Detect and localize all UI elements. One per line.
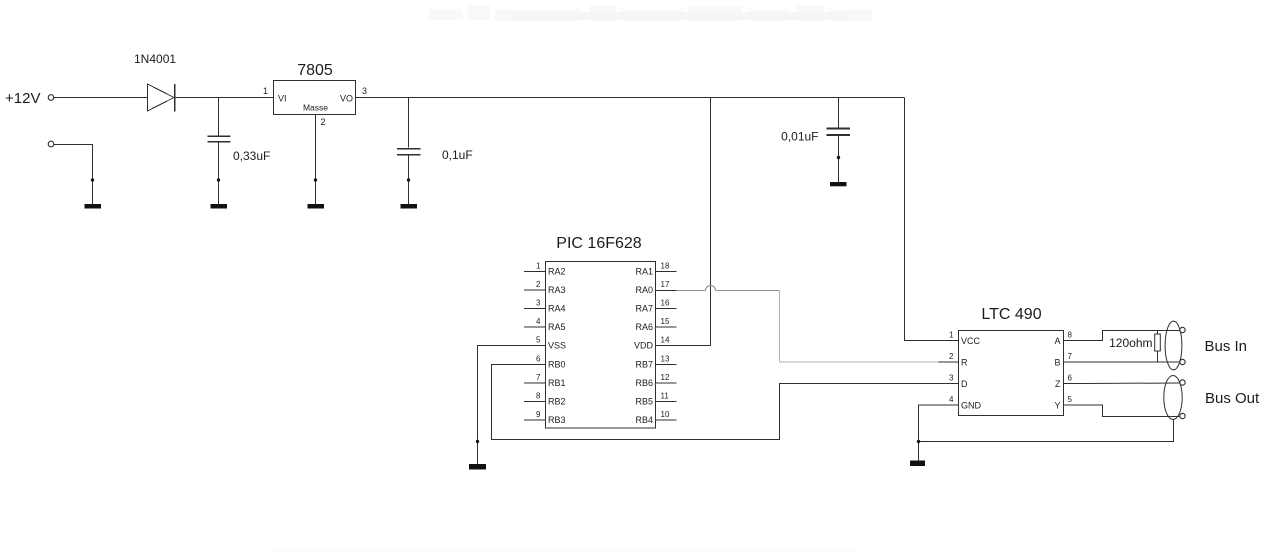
wire 7805 pin2 to ground [315, 115, 317, 205]
wire LTC B to Bus In bottom [1084, 361, 1181, 363]
wire diode to 7805 VI [175, 97, 273, 99]
svg-text:11: 11 [661, 392, 670, 401]
svg-text:2: 2 [321, 117, 326, 127]
junction dot on VSS ground lead [476, 440, 479, 443]
terminal Bus Out Y [1180, 413, 1185, 418]
svg-text:RB2: RB2 [548, 397, 566, 407]
svg-text:RB7: RB7 [635, 360, 653, 370]
ground under 7805 [308, 204, 325, 209]
LTC right pin names [1054, 336, 1061, 411]
svg-text:VSS: VSS [548, 341, 566, 351]
svg-text:7805: 7805 [297, 62, 333, 79]
svg-text:15: 15 [661, 317, 670, 326]
terminal +12V [48, 95, 54, 101]
svg-text:2: 2 [949, 352, 954, 361]
svg-text:8: 8 [536, 392, 541, 401]
svg-text:Bus In: Bus In [1205, 338, 1248, 355]
wire RA0 corner down (light grey) [779, 291, 781, 363]
svg-text:PIC 16F628: PIC 16F628 [556, 235, 641, 252]
svg-text:3: 3 [536, 299, 541, 308]
LTC right pin numbers [1068, 331, 1073, 405]
wire 5V rail from VO to LTC drop [356, 97, 905, 99]
svg-text:RB4: RB4 [635, 415, 653, 425]
PIC right pin numbers [661, 262, 670, 420]
wire LTC GND to ground and shield [919, 405, 1174, 461]
LTC right pin stubs 8-5 [1064, 341, 1084, 406]
IC U3 LTC 490 body [959, 331, 1064, 416]
junction dot on return ground lead [91, 178, 94, 181]
junction dot on 7805 ground lead [314, 178, 317, 181]
svg-text:9: 9 [536, 410, 541, 419]
LTC left pin names [961, 336, 982, 411]
svg-text:RA2: RA2 [548, 267, 566, 277]
PIC left pin numbers [536, 262, 541, 420]
svg-text:17: 17 [661, 280, 670, 289]
PIC right pin names [634, 267, 654, 426]
regulator U1 7805 body [274, 81, 356, 115]
wire RA0 to hop (grey) [677, 290, 706, 292]
wire 5V rail down to PIC VDD [656, 98, 711, 346]
wire +12V to diode [54, 97, 148, 99]
svg-text:0,33uF: 0,33uF [233, 149, 270, 163]
svg-text:VCC: VCC [961, 336, 981, 346]
svg-text:RB5: RB5 [635, 397, 653, 407]
svg-text:1: 1 [536, 262, 541, 271]
svg-text:6: 6 [1068, 374, 1073, 383]
junction dot on C2 ground lead [407, 178, 410, 181]
svg-text:+12V: +12V [5, 90, 40, 107]
svg-text:RA5: RA5 [548, 322, 566, 332]
ground under C3 [830, 182, 847, 186]
svg-text:14: 14 [661, 336, 670, 345]
svg-text:18: 18 [661, 262, 670, 271]
wire RA0 hop to corner (grey) [716, 290, 780, 292]
svg-text:12: 12 [661, 373, 670, 382]
diode D1 1N4001 [148, 84, 175, 111]
svg-text:B: B [1054, 358, 1060, 368]
svg-text:2: 2 [536, 280, 541, 289]
svg-text:3: 3 [949, 374, 954, 383]
svg-text:0,01uF: 0,01uF [781, 130, 818, 144]
svg-text:8: 8 [1068, 331, 1073, 340]
svg-text:A: A [1054, 336, 1060, 346]
svg-text:5: 5 [1068, 395, 1073, 404]
wire RA0 to LTC R (light grey) [780, 361, 939, 363]
capacitor C3 0,01uF [827, 98, 851, 183]
LTC left pin numbers [949, 331, 954, 405]
svg-text:1: 1 [263, 86, 268, 96]
svg-text:4: 4 [949, 395, 954, 404]
svg-text:Masse: Masse [303, 103, 328, 113]
terminal Bus In B [1180, 359, 1185, 364]
junction dot on C3 ground lead [837, 156, 840, 159]
svg-text:Bus Out: Bus Out [1205, 390, 1260, 407]
svg-text:RA0: RA0 [635, 285, 653, 295]
svg-text:0,1uF: 0,1uF [442, 148, 473, 162]
wire 5V rail down to LTC VCC [905, 98, 959, 341]
Bus In cable ellipse [1165, 321, 1182, 370]
wire PIC RA0 stub [656, 290, 677, 292]
Bus Out cable ellipse [1164, 376, 1182, 420]
wire LTC Y to Bus Out bottom [1084, 405, 1181, 417]
faint watermark band top [429, 5, 872, 21]
wire LTC A to Bus In top [1084, 331, 1181, 341]
terminal ground return [48, 141, 54, 147]
wire PIC RB0 to LTC D [492, 365, 959, 440]
svg-text:GND: GND [961, 401, 982, 411]
svg-text:Z: Z [1055, 379, 1061, 389]
junction dot on LTC ground [917, 440, 920, 443]
svg-text:5: 5 [536, 336, 541, 345]
svg-text:120ohm: 120ohm [1109, 336, 1152, 350]
svg-text:16: 16 [661, 299, 670, 308]
svg-text:R: R [961, 358, 968, 368]
wire LTC R stub [939, 361, 959, 363]
svg-text:13: 13 [661, 355, 670, 364]
wire return terminal to ground [54, 145, 93, 205]
svg-text:RB1: RB1 [548, 378, 566, 388]
svg-text:1: 1 [949, 331, 954, 340]
IC U2 PIC 16F628 body [546, 262, 656, 429]
resistor R1 lead bottom [1157, 351, 1159, 362]
svg-text:6: 6 [536, 355, 541, 364]
ground under LTC [910, 461, 925, 467]
svg-text:4: 4 [536, 317, 541, 326]
wire LTC Z to Bus Out top [1084, 382, 1181, 385]
svg-text:RB6: RB6 [635, 378, 653, 388]
svg-text:VI: VI [278, 94, 287, 104]
PIC left pin stubs 1-9 [524, 272, 546, 421]
ground under C2 [401, 204, 418, 209]
terminal Bus Out Z [1180, 380, 1185, 385]
terminal Bus In A [1180, 327, 1185, 332]
svg-text:RA4: RA4 [548, 304, 566, 314]
svg-text:RA1: RA1 [635, 267, 653, 277]
svg-text:D: D [961, 379, 968, 389]
svg-text:RB0: RB0 [548, 360, 566, 370]
svg-text:7: 7 [1068, 352, 1073, 361]
svg-text:VO: VO [340, 94, 353, 104]
svg-text:VDD: VDD [634, 341, 654, 351]
svg-text:RA7: RA7 [635, 304, 653, 314]
resistor R1 120ohm [1155, 334, 1161, 351]
ground under C1 [211, 204, 228, 209]
ground under return terminal [85, 204, 102, 209]
ground under PIC VSS [469, 464, 486, 470]
svg-text:RB3: RB3 [548, 415, 566, 425]
junction dot on C1 ground lead [217, 178, 220, 181]
svg-text:RA3: RA3 [548, 285, 566, 295]
svg-text:RA6: RA6 [635, 322, 653, 332]
svg-text:10: 10 [661, 410, 670, 419]
svg-text:Y: Y [1054, 401, 1060, 411]
faint watermark band bottom [272, 549, 858, 553]
wire PIC VSS to ground [478, 346, 546, 465]
resistor R1 lead top [1157, 331, 1159, 335]
svg-text:3: 3 [362, 86, 367, 96]
LTC left pin stubs 1-4 [939, 341, 959, 406]
svg-text:LTC 490: LTC 490 [981, 306, 1041, 323]
capacitor C2 0,1uF [397, 98, 421, 205]
svg-text:7: 7 [536, 373, 541, 382]
capacitor C1 0,33uF [208, 98, 231, 205]
PIC left pin names [548, 267, 566, 426]
PIC right pin stubs 18-10 [656, 272, 677, 421]
svg-text:1N4001: 1N4001 [134, 52, 176, 66]
wire hop over VDD line [706, 286, 716, 291]
